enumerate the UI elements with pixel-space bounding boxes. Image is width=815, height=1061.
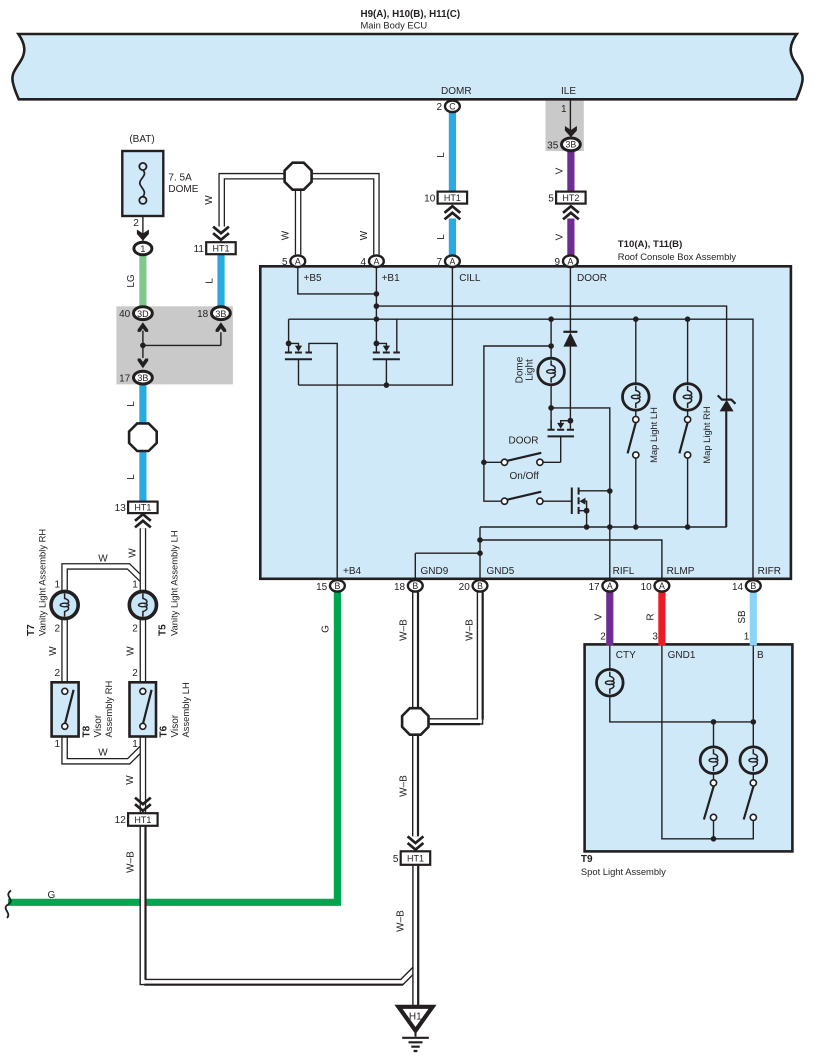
svg-text:1: 1: [744, 632, 750, 643]
svg-text:GND9: GND9: [421, 566, 449, 577]
svg-text:T9: T9: [581, 854, 593, 865]
svg-text:HT1: HT1: [407, 854, 424, 864]
svg-text:RIFR: RIFR: [758, 566, 781, 577]
svg-text:ILE: ILE: [561, 86, 576, 97]
svg-text:18: 18: [197, 309, 209, 320]
svg-text:12: 12: [115, 815, 127, 826]
svg-text:H9(A), H10(B), H11(C): H9(A), H10(B), H11(C): [361, 9, 461, 20]
svg-text:G: G: [321, 625, 332, 633]
svg-text:On/Off: On/Off: [510, 471, 539, 482]
svg-text:C: C: [449, 102, 456, 112]
svg-text:B: B: [477, 581, 483, 591]
svg-text:9: 9: [555, 257, 561, 268]
svg-text:W: W: [125, 775, 136, 785]
svg-text:H1: H1: [409, 1012, 422, 1023]
svg-text:L: L: [204, 278, 215, 284]
svg-text:2: 2: [54, 623, 60, 634]
svg-text:2: 2: [132, 623, 138, 634]
svg-text:4: 4: [361, 257, 367, 268]
svg-text:Roof Console Box Assembly: Roof Console Box Assembly: [618, 251, 737, 262]
svg-text:18: 18: [394, 582, 406, 593]
svg-text:3: 3: [652, 632, 658, 643]
svg-text:+B5: +B5: [304, 273, 323, 284]
svg-text:40: 40: [119, 309, 131, 320]
svg-text:5: 5: [548, 193, 554, 204]
svg-text:W–B: W–B: [395, 910, 406, 932]
svg-text:T7: T7: [26, 624, 37, 636]
svg-text:HT1: HT1: [134, 815, 151, 825]
svg-text:Map Light RH: Map Light RH: [701, 406, 712, 463]
svg-text:2: 2: [54, 668, 60, 679]
svg-text:5: 5: [282, 257, 288, 268]
svg-text:17: 17: [119, 373, 131, 384]
svg-text:1: 1: [561, 104, 567, 115]
svg-text:2: 2: [436, 102, 442, 113]
svg-text:GND5: GND5: [487, 566, 515, 577]
svg-text:SB: SB: [737, 610, 748, 624]
svg-text:10: 10: [641, 582, 653, 593]
svg-text:1: 1: [54, 579, 60, 590]
svg-text:HT1: HT1: [134, 503, 151, 513]
svg-text:Vanity Light Assembly LH: Vanity Light Assembly LH: [169, 530, 180, 636]
svg-text:3D: 3D: [137, 309, 149, 319]
svg-text:+B1: +B1: [382, 273, 401, 284]
svg-text:2: 2: [133, 218, 139, 229]
svg-text:L: L: [436, 234, 447, 240]
svg-text:CTY: CTY: [616, 650, 636, 661]
svg-text:Light: Light: [524, 359, 535, 381]
svg-text:W–B: W–B: [399, 619, 410, 641]
svg-text:Vanity Light Assembly RH: Vanity Light Assembly RH: [37, 529, 48, 636]
svg-text:W: W: [48, 646, 59, 656]
svg-text:W: W: [98, 748, 108, 759]
svg-text:LG: LG: [126, 274, 137, 288]
svg-text:2: 2: [600, 632, 606, 643]
svg-text:B: B: [757, 650, 764, 661]
svg-text:W–B: W–B: [464, 619, 475, 641]
svg-text:1: 1: [140, 244, 145, 254]
svg-text:Assembly RH: Assembly RH: [103, 681, 114, 738]
svg-text:RLMP: RLMP: [667, 566, 695, 577]
svg-text:L: L: [436, 152, 447, 158]
svg-text:CILL: CILL: [459, 273, 481, 284]
svg-text:G: G: [48, 890, 56, 901]
svg-text:Main Body ECU: Main Body ECU: [361, 20, 428, 31]
svg-text:W: W: [359, 230, 370, 240]
svg-text:DOOR: DOOR: [509, 436, 539, 447]
svg-text:5: 5: [393, 854, 399, 865]
svg-text:35: 35: [547, 141, 559, 152]
svg-text:V: V: [554, 167, 565, 174]
svg-text:DOMR: DOMR: [441, 86, 472, 97]
svg-text:20: 20: [459, 582, 471, 593]
svg-text:HT1: HT1: [444, 193, 461, 203]
svg-text:A: A: [659, 581, 665, 591]
svg-text:10: 10: [424, 193, 436, 204]
svg-text:L: L: [126, 474, 137, 480]
svg-text:W: W: [126, 646, 137, 656]
svg-text:2: 2: [132, 668, 138, 679]
svg-text:T10(A), T11(B): T10(A), T11(B): [618, 239, 683, 250]
svg-text:B: B: [334, 581, 340, 591]
svg-text:GND1: GND1: [668, 650, 696, 661]
svg-text:A: A: [295, 256, 301, 266]
svg-text:DOOR: DOOR: [577, 273, 607, 284]
svg-text:Spot Light Assembly: Spot Light Assembly: [581, 866, 666, 877]
svg-text:HT2: HT2: [562, 193, 579, 203]
svg-text:R: R: [646, 613, 657, 620]
svg-text:L: L: [126, 401, 137, 407]
svg-text:+B4: +B4: [343, 566, 362, 577]
svg-text:Assembly LH: Assembly LH: [180, 682, 191, 737]
svg-text:B: B: [412, 581, 418, 591]
svg-text:13: 13: [115, 503, 127, 514]
svg-text:14: 14: [732, 582, 744, 593]
svg-text:V: V: [554, 233, 565, 240]
svg-text:T6: T6: [159, 725, 170, 737]
svg-text:T8: T8: [82, 725, 93, 737]
svg-text:A: A: [567, 256, 573, 266]
svg-text:A: A: [607, 581, 613, 591]
svg-text:7. 5A: 7. 5A: [168, 173, 192, 184]
svg-text:17: 17: [588, 582, 600, 593]
svg-text:B: B: [750, 581, 756, 591]
svg-text:Map Light LH: Map Light LH: [648, 407, 659, 463]
svg-text:1: 1: [132, 739, 138, 750]
svg-text:HT1: HT1: [212, 244, 229, 254]
svg-text:RIFL: RIFL: [613, 566, 635, 577]
svg-text:A: A: [373, 256, 379, 266]
svg-text:3B: 3B: [566, 140, 577, 150]
svg-text:A: A: [449, 256, 455, 266]
svg-text:W: W: [204, 195, 215, 205]
svg-text:15: 15: [316, 582, 328, 593]
svg-text:3B: 3B: [137, 373, 148, 383]
svg-text:(BAT): (BAT): [129, 134, 154, 145]
svg-text:W: W: [98, 554, 108, 565]
svg-text:1: 1: [54, 739, 60, 750]
svg-text:W: W: [280, 230, 291, 240]
svg-text:7: 7: [437, 257, 443, 268]
svg-text:W–B: W–B: [126, 851, 137, 873]
svg-text:W–B: W–B: [399, 775, 410, 797]
svg-text:W: W: [127, 548, 138, 558]
svg-text:DOME: DOME: [168, 184, 198, 195]
svg-text:T5: T5: [158, 624, 169, 636]
svg-text:3B: 3B: [215, 309, 226, 319]
svg-text:11: 11: [194, 244, 205, 255]
svg-text:1: 1: [132, 579, 138, 590]
svg-text:V: V: [594, 613, 605, 620]
